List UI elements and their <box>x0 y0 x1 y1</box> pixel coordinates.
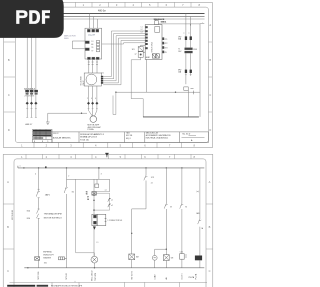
U1 inner terminal text <box>91 41 93 52</box>
svg-text:4: 4 <box>95 143 97 147</box>
zone ticks top border <box>26 2 191 7</box>
svg-text:4T2: 4T2 <box>165 43 168 45</box>
svg-text:PE: PE <box>165 52 167 54</box>
svg-text:EMPRESA: EMPRESA <box>43 251 52 254</box>
K1 top terminal block <box>155 21 159 25</box>
K1 right side terminals <box>162 37 164 53</box>
wire: 1K1 box feed down to control bus <box>131 57 143 117</box>
ground PE wire <box>48 113 87 122</box>
wire: rail tap to link <box>98 168 100 179</box>
svg-text:C5-5T1: C5-5T1 <box>182 274 184 280</box>
svg-text:MCC-13B: MCC-13B <box>38 271 40 280</box>
svg-text:ESQ 1: ESQ 1 <box>126 138 131 140</box>
K1 inner block <box>155 27 160 33</box>
wire: link rung2-rung3 <box>67 179 110 191</box>
svg-text:C: C <box>209 93 211 97</box>
svg-text:AH: AH <box>165 276 168 279</box>
control rail N bottom <box>24 267 204 269</box>
zone ticks sides p2 <box>3 204 213 249</box>
svg-text:MCC-13B-02: MCC-13B-02 <box>92 271 94 282</box>
terminal block cluster on feeder <box>24 88 38 97</box>
small relay box top rung 3 <box>95 184 99 187</box>
svg-text:Lisa-GT: Lisa-GT <box>88 35 96 37</box>
svg-text:3: 3 <box>70 155 72 159</box>
svg-text:3: 3 <box>101 173 102 175</box>
svg-text:M: M <box>170 206 172 208</box>
svg-text:7: 7 <box>182 3 184 7</box>
3-phase bus L2 <box>15 16 204 18</box>
rung 6 wire <box>180 168 184 268</box>
svg-text:L1: L1 <box>97 242 99 244</box>
selector contacts <box>108 198 111 207</box>
svg-text:1A: 1A <box>201 227 203 230</box>
title block p2 top edge <box>10 281 208 287</box>
letter D <box>29 10 40 24</box>
K1 part number label block <box>154 18 167 23</box>
border frame inner rounded p2 <box>14 159 206 287</box>
U1 right terminal column <box>97 40 100 51</box>
svg-text:1KV: 1KV <box>178 51 182 53</box>
svg-text:L2: L2 <box>141 29 143 31</box>
3-phase bus L3 <box>15 18 204 20</box>
svg-text:MCC SB: MCC SB <box>126 135 132 137</box>
svg-text:K14: K14 <box>27 211 30 213</box>
coil 1M on rung 1 <box>35 257 40 260</box>
feeder wire end ticks <box>26 108 37 117</box>
3-phase bus L1 <box>15 13 204 15</box>
svg-text:1AF1: 1AF1 <box>45 194 51 197</box>
svg-text:7: 7 <box>169 143 171 147</box>
svg-text:13: 13 <box>91 41 93 43</box>
overload cluster labels <box>86 191 89 200</box>
rung 4 wire with jog <box>132 168 148 268</box>
rung 5 wire with branch <box>155 168 168 268</box>
svg-text:1: 1 <box>20 165 21 167</box>
border frame outer p2 <box>3 154 213 287</box>
wire: stubs into U1 left terminals <box>72 41 85 49</box>
wire: drops below Q1 to motor <box>89 86 97 116</box>
svg-text:D: D <box>8 128 10 132</box>
zone ticks bottom border <box>34 143 182 148</box>
svg-text:3RW40 SOFT: 3RW40 SOFT <box>43 255 54 257</box>
earth ground symbol <box>46 122 50 125</box>
zone ticks right border <box>208 42 212 112</box>
svg-text:7: 7 <box>169 155 171 159</box>
svg-text:a2: a2 <box>135 53 137 55</box>
letter F <box>42 10 50 24</box>
wire bundle: elbows from Q1 to contactor K1 <box>102 31 146 85</box>
page 2 schematic <box>0 152 216 287</box>
svg-text:L1: L1 <box>141 26 143 28</box>
title cell: project <box>80 133 104 142</box>
svg-text:TRIT 8PM: TRIT 8PM <box>95 272 97 281</box>
svg-text:2: 2 <box>68 176 69 178</box>
revision table dense text <box>33 130 51 139</box>
motor label text <box>88 124 102 131</box>
letter P <box>16 10 27 24</box>
rotated wire tags below rail <box>38 271 197 282</box>
svg-text:1: 1 <box>21 155 23 159</box>
soft starter U1 (Lisa-GT) <box>85 28 102 59</box>
svg-text:GE: GE <box>171 258 174 260</box>
title cell: sheet number <box>183 134 191 136</box>
branch wire pair to selector <box>94 192 110 211</box>
svg-text:3: 3 <box>116 3 118 7</box>
svg-text:M: M <box>185 206 187 208</box>
svg-text:K1: K1 <box>72 191 74 193</box>
svg-text:AH: AH <box>136 256 139 259</box>
wire: down to control bus <box>188 90 190 117</box>
svg-text:97: 97 <box>91 50 93 52</box>
wire: terminal box to right riser <box>158 24 200 26</box>
svg-text:P-501 CA: P-501 CA <box>80 138 89 141</box>
border frame outer <box>4 2 213 147</box>
border frame inner <box>15 7 208 142</box>
svg-text:1M 2: 1M 2 <box>44 263 48 265</box>
junction on PE wire <box>81 113 82 114</box>
svg-text:DIBUJO: DIBUJO <box>53 133 59 135</box>
arrester / bond component <box>184 87 194 94</box>
contact 1C3 <box>144 175 148 180</box>
svg-text:BOMBA 12P-03 1/3: BOMBA 12P-03 1/3 <box>80 136 97 139</box>
rung 3 wire <box>94 179 97 267</box>
svg-text:2: 2 <box>46 155 48 159</box>
aux contacts K14 <box>37 209 40 218</box>
svg-text:MODEL ACOPLAMIENTO 5: MODEL ACOPLAMIENTO 5 <box>80 133 104 136</box>
svg-text:SIRIUS 3RW: SIRIUS 3RW <box>152 42 154 53</box>
svg-text:1K1: 1K1 <box>132 49 135 51</box>
svg-text:a1: a1 <box>105 190 107 192</box>
svg-text:MTR-01: MTR-01 <box>66 273 68 280</box>
svg-text:6: 6 <box>144 143 146 147</box>
svg-text:A: A <box>209 23 211 27</box>
svg-text:A: A <box>209 180 211 184</box>
svg-text:MOTOR ELETRICO: MOTOR ELETRICO <box>44 218 62 220</box>
pilot light 2 <box>152 255 157 260</box>
svg-text:1TL: 1TL <box>102 72 105 74</box>
zone ticks left border <box>4 42 16 112</box>
svg-text:x: x <box>184 33 185 35</box>
aux coil AH <box>129 254 135 260</box>
svg-text:95: 95 <box>86 191 88 193</box>
terminal strip coil rung 2 <box>59 257 67 260</box>
svg-text:B: B <box>209 225 211 229</box>
svg-text:x: x <box>189 33 190 35</box>
svg-text:TRITURADOR 8PM: TRITURADOR 8PM <box>44 213 62 216</box>
lug arrow rung 3 <box>93 227 96 230</box>
svg-text:6: 6 <box>95 98 96 100</box>
svg-text:4: 4 <box>132 3 134 7</box>
page 1 schematic <box>0 0 216 152</box>
meter marks rung 6 <box>180 254 187 260</box>
svg-text:6: 6 <box>144 155 146 159</box>
svg-text:A: A <box>7 180 9 184</box>
svg-text:4: 4 <box>35 173 36 175</box>
svg-text:a1: a1 <box>111 200 113 202</box>
svg-text:SOLID TMB: SOLID TMB <box>81 76 83 86</box>
lug diamonds below Q1 <box>87 102 98 105</box>
svg-text:PULTA: PULTA <box>189 276 195 279</box>
svg-text:B: B <box>8 58 10 62</box>
svg-text:(m): (m) <box>196 191 199 193</box>
terminal dark box <box>195 256 202 261</box>
svg-text:2T1 4T2 6T3: 2T1 4T2 6T3 <box>25 96 35 98</box>
relay aux boxes 1K1 stacked <box>138 45 145 57</box>
side box <box>97 214 106 225</box>
svg-text:D: D <box>209 128 211 132</box>
secondary fuse 3FU <box>185 70 192 73</box>
svg-text:P-501A: P-501A <box>88 128 95 131</box>
title cell: company <box>126 132 132 140</box>
fuse FU1 pair <box>185 36 192 40</box>
control rail L <box>18 166 204 168</box>
Q1 right terminal column <box>101 76 103 84</box>
svg-text:97: 97 <box>87 196 89 198</box>
rung 1 wire <box>36 168 40 268</box>
soft starter note text <box>43 251 54 260</box>
svg-text:ACOPLAMIENTO & ALTERACION: ACOPLAMIENTO & ALTERACION <box>146 134 171 137</box>
svg-text:No. 31 of: No. 31 of <box>183 134 191 136</box>
svg-text:RB TO TB: RB TO TB <box>131 271 133 280</box>
rung 7 wire <box>198 168 202 268</box>
svg-text:1: 1 <box>21 143 23 147</box>
breaker contact 1AF1 <box>36 189 40 198</box>
control transformer T1 <box>185 48 193 54</box>
PDF badge <box>0 0 70 42</box>
K1 left terminal squares <box>146 26 148 49</box>
svg-text:ABB I/Y: ABB I/Y <box>25 123 33 126</box>
wire: link down-left elbow <box>113 92 116 114</box>
cable lug diamonds on feeder <box>26 102 38 105</box>
svg-text:480-3ø: 480-3ø <box>98 9 106 12</box>
zone ticks top p2 <box>26 154 191 159</box>
svg-text:96: 96 <box>86 194 88 196</box>
wire: horizontal link y92 <box>116 91 200 93</box>
svg-text:2: 2 <box>87 98 88 100</box>
svg-text:2: 2 <box>99 3 101 7</box>
svg-text:ELECTRICAL LTDA 480V-MCC: ELECTRICAL LTDA 480V-MCC <box>146 137 169 140</box>
svg-text:AGUILAR MENDIVIL: AGUILAR MENDIVIL <box>53 136 71 139</box>
K1 top-left pin labels <box>141 26 143 33</box>
title block outline <box>33 129 209 142</box>
svg-text:5: 5 <box>120 143 122 147</box>
junction dots rung 3 <box>93 194 94 210</box>
rung 2 wire <box>64 168 68 268</box>
svg-text:1A20: 1A20 <box>196 212 200 215</box>
svg-text:8: 8 <box>198 3 200 7</box>
svg-text:A: A <box>191 139 193 142</box>
svg-text:5: 5 <box>149 3 151 7</box>
K1 bottom terminals <box>152 54 159 58</box>
wire: left feeder drops L1,L2,L3 <box>27 14 36 118</box>
svg-text:C: C <box>8 93 10 97</box>
wire: drops from bus to starter U1 <box>89 14 97 29</box>
relay GE box <box>163 255 169 261</box>
svg-text:30A: 30A <box>178 37 182 40</box>
control transformer feeder pair <box>186 14 191 85</box>
svg-text:2: 2 <box>46 143 48 147</box>
svg-text:2T1: 2T1 <box>165 39 168 41</box>
svg-text:C: C <box>7 269 9 273</box>
svg-text:22: 22 <box>151 183 153 185</box>
svg-text:10A: 10A <box>178 71 182 74</box>
svg-text:8: 8 <box>193 143 195 147</box>
junction dots on rail <box>23 167 182 168</box>
wire: right riser from bus <box>200 24 204 117</box>
svg-text:K14: K14 <box>27 218 30 220</box>
svg-text:A1: A1 <box>91 43 93 46</box>
contactor K1 tall box <box>145 25 162 60</box>
svg-text:STARTER: STARTER <box>43 256 52 259</box>
svg-text:C: C <box>209 269 211 273</box>
overload X mark rung 3 <box>92 192 96 196</box>
svg-text:5: 5 <box>120 155 122 159</box>
svg-text:1 CONDUCTOR N 8: 1 CONDUCTOR N 8 <box>108 220 123 222</box>
wire: fuse drops below U1 <box>88 59 98 73</box>
svg-text:6: 6 <box>166 3 168 7</box>
svg-text:3: 3 <box>70 143 72 147</box>
pilot light rung 3 <box>91 256 98 263</box>
svg-text:A1A2: A1A2 <box>146 56 150 59</box>
control bus bar <box>143 116 199 118</box>
svg-text:4: 4 <box>91 98 92 100</box>
svg-text:120V: 120V <box>193 49 198 51</box>
revision header band p2 <box>7 285 35 287</box>
svg-text:6T3: 6T3 <box>165 48 168 50</box>
svg-text:B: B <box>209 58 211 62</box>
motor M1 <box>90 116 97 123</box>
svg-text:C55: C55 <box>180 252 183 254</box>
svg-text:4: 4 <box>95 155 97 159</box>
staple mark artifact <box>106 153 109 157</box>
svg-text:PULTA: PULTA <box>195 273 198 279</box>
svg-text:MCC-13B-02: MCC-13B-02 <box>12 210 14 220</box>
contact K1 <box>64 186 68 193</box>
wire: branch to pilot light <box>76 179 95 256</box>
svg-text:B: B <box>7 225 9 229</box>
stacked contact boxes rung 3 <box>92 214 107 225</box>
svg-text:98: 98 <box>87 199 89 201</box>
svg-text:1C3: 1C3 <box>151 177 154 179</box>
motor protector Q1 box with circle <box>84 73 101 86</box>
svg-text:1BB14: 1BB14 <box>161 20 167 23</box>
wire: K1 bottom down to link <box>146 59 148 92</box>
svg-text:95: 95 <box>91 47 93 49</box>
svg-text:8: 8 <box>193 155 195 159</box>
svg-text:a2: a2 <box>111 205 113 207</box>
svg-text:LOAD: LOAD <box>153 274 156 280</box>
svg-text:1: 1 <box>83 3 85 7</box>
wire: bus tap to K1 top <box>155 19 157 21</box>
svg-text:L3: L3 <box>141 32 143 34</box>
